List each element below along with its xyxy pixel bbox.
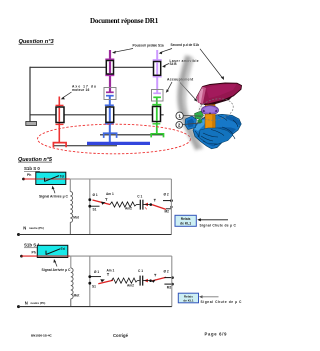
svg-text:Corrigé: Corrigé [113, 333, 129, 338]
wire top rail [70, 255, 172, 257]
rod A (slider rail blue/green) [100, 134, 163, 136]
shaft S1b lavender [156, 50, 158, 93]
svg-text:Document réponse DR1: Document réponse DR1 [90, 17, 159, 25]
shadow streaks [180, 56, 198, 149]
machine blue base [193, 114, 241, 149]
svg-text:Am2: Am2 [127, 283, 134, 287]
svg-text:S1: S1 [92, 285, 96, 289]
wire phase (red) [24, 178, 71, 180]
svg-text:moteur 16: moteur 16 [72, 88, 90, 92]
bearing red [56, 107, 64, 123]
svg-text:1: 1 [178, 114, 181, 119]
blue slider stirrup [104, 133, 117, 138]
svg-text:Signal Arrivée µ C: Signal Arrivée µ C [42, 268, 72, 272]
contact O2 with stub [164, 277, 172, 279]
wire right vertical [170, 179, 172, 235]
wire left vertical [89, 179, 91, 235]
svg-text:Ph: Ph [27, 173, 31, 177]
red dashed ellipse [38, 124, 191, 154]
label Signal Chute uC with arrow [199, 219, 228, 221]
switch S1b box (telerupteur) [36, 172, 66, 184]
label Poussoir pedale S1a [61, 43, 224, 101]
svg-text:neutre (Ph): neutre (Ph) [29, 226, 44, 230]
bearing green [152, 104, 161, 106]
svg-text:N: N [25, 300, 28, 305]
pedal dark underside [202, 95, 234, 105]
svg-text:Ph: Ph [32, 251, 36, 255]
svg-text:Mot: Mot [73, 215, 80, 219]
svg-text:S1b S 0: S1b S 0 [24, 166, 40, 171]
circled part number 1 [176, 112, 183, 119]
relay KL1 box [178, 293, 198, 303]
coupling box 1 [104, 88, 116, 100]
frame top rail [30, 66, 161, 68]
wire neutral [19, 306, 172, 308]
svg-text:Ø 1: Ø 1 [94, 270, 99, 274]
node pivot [150, 203, 153, 206]
node pivot [149, 279, 152, 282]
label Signal Chute uC with arrow [201, 296, 219, 298]
capacitor C1 [139, 200, 141, 210]
svg-text:Signal Chute de µ C: Signal Chute de µ C [200, 223, 237, 227]
wire capacitor to pivot [143, 204, 151, 206]
violet collar [201, 106, 218, 115]
left blue piece [185, 116, 197, 130]
switch blade 1 (open, rising) [98, 280, 113, 284]
green slider stirrup [151, 134, 163, 138]
svg-text:S1: S1 [93, 208, 97, 212]
red pointer at capacitor [144, 203, 148, 207]
inductor Am1-Am2 [110, 202, 137, 207]
svg-text:Tel: Tel [61, 247, 65, 251]
switch blade 2 (to lower contact M2) [152, 205, 166, 210]
green cross [153, 123, 161, 125]
svg-text:M2: M2 [167, 286, 172, 290]
inductor Am1-Am2 [112, 278, 138, 283]
frame left vertical [29, 67, 31, 122]
circled part number 2 [176, 122, 183, 129]
svg-text:Page 6/9: Page 6/9 [205, 331, 228, 336]
svg-text:Signal Arrivée µ C: Signal Arrivée µ C [39, 194, 69, 198]
wire to capacitor [137, 204, 140, 206]
svg-text:Second p.d de S1b: Second p.d de S1b [171, 43, 200, 47]
svg-text:M2: M2 [165, 209, 170, 213]
red cross 2 [56, 123, 64, 125]
coupling box 2 [152, 90, 164, 102]
svg-text:N: N [23, 225, 26, 230]
svg-text:Am2: Am2 [125, 206, 132, 210]
shaft red motor axis 17 [58, 97, 60, 143]
node O1 junction with stub [88, 275, 91, 278]
svg-text:C 1: C 1 [137, 194, 142, 198]
contact M2 with stub [164, 283, 172, 285]
svg-text:Ø 1: Ø 1 [93, 193, 98, 197]
motor coil Mot [71, 268, 73, 299]
svg-text:Am 1: Am 1 [106, 192, 114, 196]
wire coil to neutral [69, 222, 71, 234]
svg-text:Question n°3: Question n°3 [19, 39, 55, 45]
orange cylinder lower [205, 114, 215, 131]
red slider stirrup [53, 143, 66, 148]
node S1 junction [88, 282, 91, 285]
svg-text:C 1: C 1 [138, 269, 143, 273]
switch S1b box (telerupteur) [37, 245, 68, 257]
svg-text:Poussoir pédale S1a: Poussoir pédale S1a [133, 44, 164, 48]
switch blade 2 (closed to upper contact O2) [152, 277, 166, 281]
wire right vertical [171, 256, 173, 307]
svg-text:Question n°5: Question n°5 [18, 157, 53, 163]
svg-text:neutre (Ph): neutre (Ph) [31, 301, 46, 305]
lavender cap [205, 98, 215, 103]
ground [26, 122, 37, 126]
switch blade 1 (closed to branch) [93, 200, 111, 205]
contact O2 with stub [163, 200, 171, 202]
motor coil Mot [70, 192, 72, 223]
node N terminal [17, 305, 20, 308]
svg-text:Mot: Mot [74, 293, 81, 297]
svg-text:de KL1: de KL1 [183, 298, 194, 302]
rod B (slider rail red) [54, 145, 117, 147]
pedal [197, 83, 242, 104]
wire coil drop [70, 256, 72, 268]
wire coil to neutral [70, 299, 72, 307]
node O1 junction [88, 198, 91, 201]
wire coil drop [69, 179, 71, 192]
frame lower rail [30, 114, 164, 116]
wire capacitor to pivot [143, 280, 151, 282]
red pointer at capacitor [144, 279, 148, 283]
shaft S1a magenta [109, 50, 111, 92]
svg-text:BN1036-1B-4C: BN1036-1B-4C [31, 333, 53, 337]
wire left vertical [89, 256, 91, 307]
wire phase (red) [22, 255, 71, 257]
svg-text:de KL1: de KL1 [180, 221, 191, 225]
svg-text:Ø 2: Ø 2 [164, 193, 169, 197]
wire top rail [70, 178, 172, 180]
blue link bar [87, 142, 150, 145]
capacitor C1 [139, 276, 141, 286]
red cross 1 [56, 104, 64, 106]
svg-text:Ø 2: Ø 2 [164, 270, 169, 274]
svg-text:S4 B: S4 B [170, 62, 178, 66]
shaft blue lower [109, 96, 111, 142]
svg-text:Signal Chute de µ C: Signal Chute de µ C [201, 300, 243, 304]
node N terminal [17, 233, 20, 236]
wire neutral [19, 234, 172, 236]
node S1 junction with stub [88, 205, 91, 208]
shaft green lower [156, 97, 158, 134]
green bits [195, 111, 204, 120]
wire to capacitor [137, 280, 139, 282]
bearing top 2 [153, 59, 162, 61]
contact M2 with stub [166, 208, 171, 210]
svg-text:Am 1: Am 1 [107, 269, 115, 273]
relay KL1 box [175, 215, 196, 226]
bearing top 1 [105, 58, 114, 60]
bearing blue [105, 104, 114, 106]
dashed ellipse around coupling [197, 96, 236, 123]
blue foreground over cylinder [199, 128, 233, 144]
svg-text:Tel: Tel [60, 175, 64, 179]
orange upper segment [205, 101, 215, 109]
